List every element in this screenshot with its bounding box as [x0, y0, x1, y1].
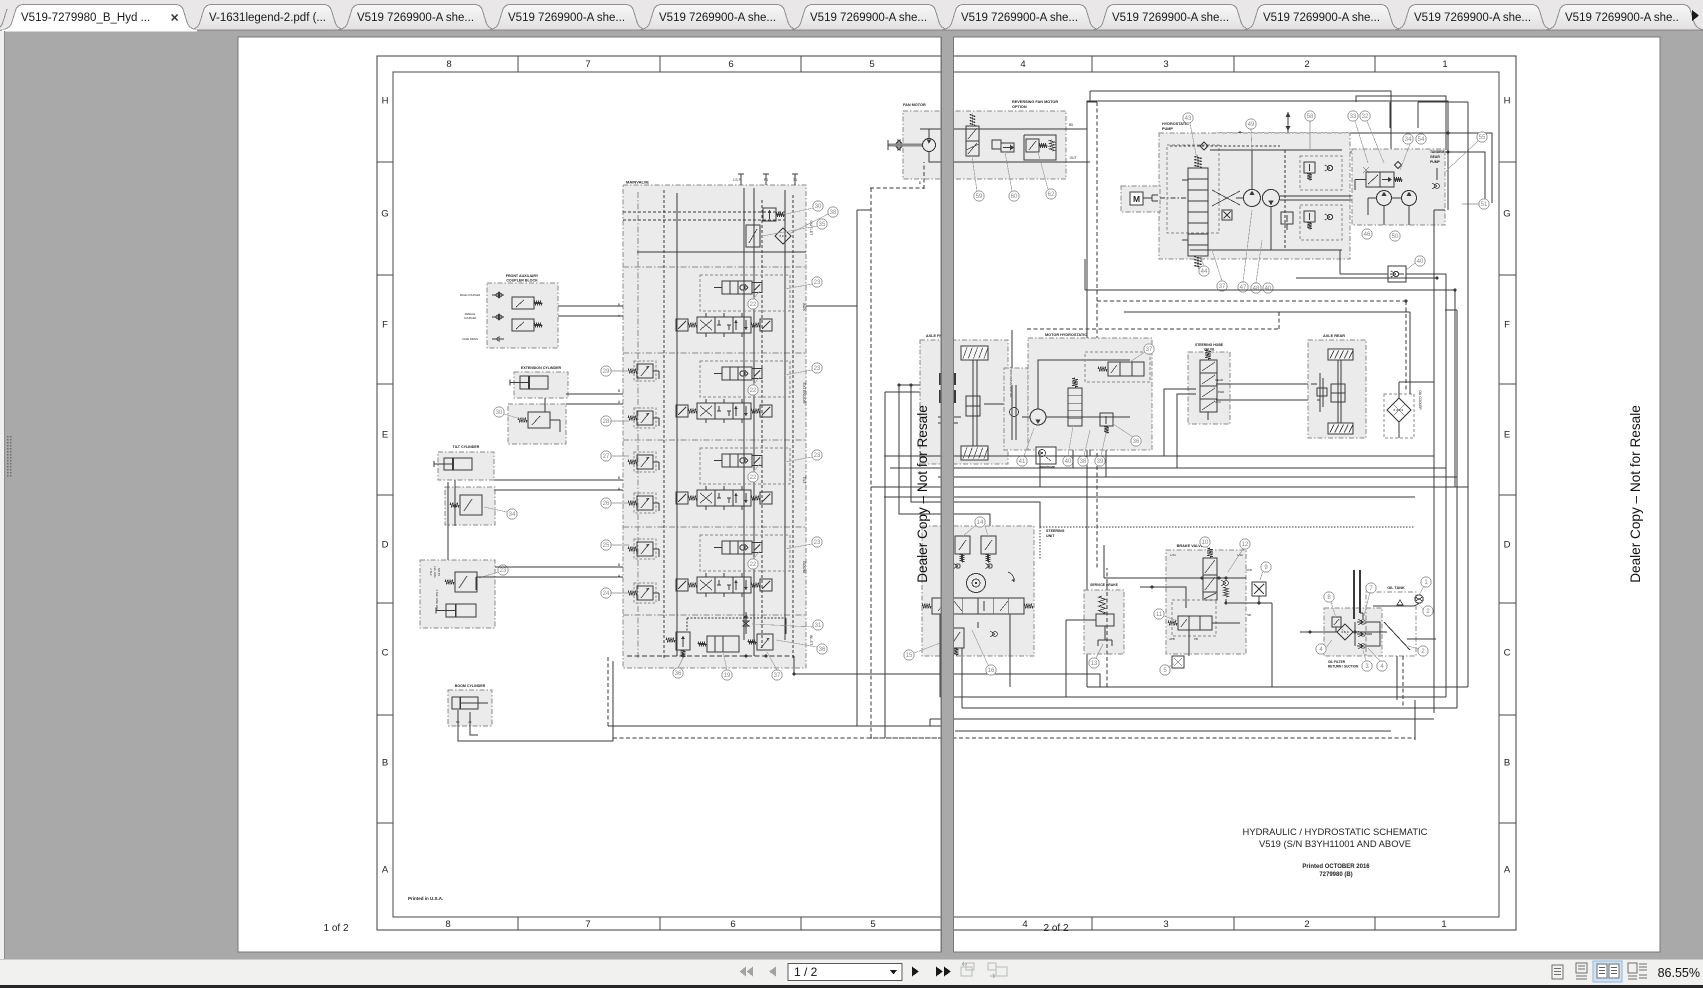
charge relief sub-block A	[1300, 156, 1342, 190]
svg-text:F: F	[382, 320, 388, 331]
svg-text:25: 25	[603, 543, 610, 549]
boom cylinder	[452, 697, 478, 709]
svg-text:54: 54	[1418, 137, 1425, 143]
inlet section unloader valve	[707, 636, 739, 652]
leftmost partial tab edge	[0, 9, 7, 30]
continuous layout icon	[1576, 963, 1587, 979]
page 2 drawing outer frame	[954, 56, 1516, 930]
svg-text:40: 40	[1065, 459, 1072, 465]
outlet balloons	[813, 201, 823, 211]
outlet unload valve	[746, 225, 760, 247]
svg-text:8: 8	[445, 919, 450, 930]
svg-text:31: 31	[815, 623, 822, 629]
svg-text:OIL TANK: OIL TANK	[1387, 586, 1405, 590]
svg-text:7279980 (B): 7279980 (B)	[1319, 872, 1352, 878]
svg-text:36: 36	[819, 647, 826, 653]
fan return solid trunk down	[1086, 129, 1088, 687]
brake valve balloons	[1200, 537, 1210, 547]
svg-text:C: C	[1504, 648, 1511, 659]
svg-text:16: 16	[988, 668, 995, 674]
brake valve supply wire	[1104, 577, 1246, 579]
tilt valve balloon	[507, 509, 517, 519]
inlet pilot dash wire	[687, 617, 786, 619]
fan motor circle	[923, 139, 936, 152]
tank outlet wires	[1396, 656, 1398, 700]
svg-text:H: H	[1504, 96, 1511, 107]
page gap	[942, 36, 954, 953]
svg-text:RETURN / SUCTION: RETURN / SUCTION	[1328, 665, 1359, 669]
svg-text:V-1631legend-2.pdf (...: V-1631legend-2.pdf (...	[209, 12, 326, 24]
svg-text:35: 35	[819, 222, 826, 228]
svg-text:D: D	[382, 540, 389, 551]
long return wire dashed to page 2	[613, 737, 953, 739]
pump servo sub-box	[1167, 145, 1219, 233]
svg-text:EXTENDOR: EXTENDOR	[802, 382, 806, 403]
svg-text:UNIT: UNIT	[1046, 534, 1055, 538]
svg-text:V519 7269900-A she...: V519 7269900-A she...	[357, 12, 474, 24]
svg-text:2 of 2: 2 of 2	[1043, 923, 1068, 934]
svg-text:BOOM: BOOM	[802, 561, 806, 573]
work section EXTENDOR main spool valve	[697, 403, 751, 419]
svg-text:55: 55	[1479, 135, 1486, 141]
coupler fittings	[492, 294, 504, 296]
brake pressure switch	[1252, 582, 1266, 596]
active tab V519-7279980_B_Hyd	[1, 5, 198, 31]
work section BOOM PO check valve	[700, 535, 790, 571]
svg-text:1: 1	[1442, 59, 1447, 70]
svg-text:2: 2	[1304, 59, 1309, 70]
svg-text:32: 32	[1362, 114, 1369, 120]
svg-text:OIL COOLER: OIL COOLER	[1418, 390, 1422, 410]
hydrostatic pump circles	[1244, 190, 1261, 207]
svg-text:E: E	[382, 430, 388, 441]
tank fluid level line	[1373, 605, 1414, 607]
svg-text:1: 1	[1441, 919, 1446, 930]
svg-text:2: 2	[1304, 919, 1309, 930]
axle rear differential	[1331, 384, 1345, 402]
two page continuous layout icon	[1628, 963, 1647, 979]
svg-text:GEAR: GEAR	[1430, 155, 1440, 159]
drive motor loop	[1038, 360, 1130, 409]
inactive tab 9	[1243, 5, 1403, 31]
svg-text:A: A	[1504, 865, 1511, 876]
fan drain dashed wire to trunk	[870, 187, 924, 189]
fan motor loop wires	[929, 129, 1066, 139]
svg-text:62: 62	[1048, 192, 1055, 198]
svg-text:30: 30	[815, 204, 822, 210]
bottom dark strip	[0, 985, 1703, 988]
previous page button	[769, 967, 776, 977]
extension cylinder valve block	[508, 404, 566, 444]
work section AUX balloons	[812, 277, 822, 287]
engine motor box	[1121, 186, 1160, 212]
svg-text:44: 44	[1201, 269, 1208, 275]
svg-text:EXTENSION CYLINDER: EXTENSION CYLINDER	[521, 366, 562, 370]
front auxiliary coupler block	[487, 283, 558, 348]
extension valve balloon	[494, 407, 504, 417]
work section TILT balloons	[812, 450, 822, 460]
svg-text:BOOM CYLINDER: BOOM CYLINDER	[455, 684, 486, 688]
svg-text:4: 4	[1020, 59, 1025, 70]
inactive tab 6	[790, 5, 950, 31]
oil cooler wires	[1398, 382, 1400, 398]
svg-text:TILT CYLINDER: TILT CYLINDER	[453, 445, 480, 449]
filter wires	[1300, 631, 1337, 633]
rpm temp sensor	[1036, 447, 1056, 464]
inactive tab 3	[337, 5, 497, 31]
svg-text:HYDRAULIC / HYDROSTATIC SCHEMA: HYDRAULIC / HYDROSTATIC SCHEMATIC	[1243, 826, 1428, 837]
brake pressure switch 2	[1172, 656, 1184, 668]
axle rear brake discs	[1319, 373, 1321, 412]
charge relief sub-block B	[1300, 205, 1342, 240]
wires extension block to main valve	[566, 393, 623, 395]
svg-text:MAINVALVE: MAINVALVE	[626, 180, 649, 185]
brake spool output wires	[1212, 622, 1240, 624]
svg-text:29: 29	[603, 369, 610, 375]
dotted supply line above brake valve	[1040, 526, 1415, 528]
filter return trunk lines	[1353, 570, 1355, 619]
inactive tab 8	[1092, 5, 1252, 31]
svg-text:V519 7269900-A she..: V519 7269900-A she..	[1565, 12, 1679, 24]
svg-text:SERVICE BRAKE: SERVICE BRAKE	[1090, 583, 1119, 587]
svg-text:V519 7269900-A she...: V519 7269900-A she...	[810, 12, 927, 24]
inlet section relief valve 2	[757, 634, 773, 650]
extension cylinder	[520, 376, 548, 389]
svg-text:14: 14	[977, 520, 984, 526]
svg-text:✕: ✕	[170, 13, 179, 25]
steering gerotor	[967, 574, 986, 593]
inactive tab 11	[1545, 5, 1703, 31]
svg-text:58: 58	[1307, 114, 1314, 120]
svg-text:C: C	[382, 648, 389, 659]
svg-text:27: 27	[603, 454, 610, 460]
work section EXTENDOR PO check valve	[700, 361, 790, 397]
wires coupler block to main valve	[558, 305, 623, 307]
svg-text:BRAKE VALVE: BRAKE VALVE	[1177, 544, 1204, 548]
work section BOOM main spool valve	[697, 577, 751, 593]
oil cooler	[1384, 394, 1414, 438]
svg-text:30: 30	[496, 410, 503, 416]
hydrostatic pump block	[1159, 133, 1350, 259]
svg-text:6: 6	[728, 59, 733, 70]
svg-text:23: 23	[814, 366, 821, 372]
svg-text:V519 7269900-A she...: V519 7269900-A she...	[508, 12, 625, 24]
main control valve block	[623, 185, 806, 668]
outlet relief valve	[763, 208, 776, 221]
steering check bottom	[993, 632, 998, 637]
page number box	[788, 964, 902, 981]
filter balloons	[1324, 592, 1334, 602]
top right trunk wires	[1417, 102, 1419, 128]
steering unit wires down	[939, 614, 941, 697]
svg-text:40: 40	[1265, 286, 1272, 292]
motor control sub valve	[1085, 352, 1150, 382]
pump internal wires	[1284, 150, 1286, 250]
axle front wheel top	[961, 346, 988, 360]
extension load-holding valve	[528, 412, 550, 428]
svg-text:FEMALE: FEMALE	[465, 312, 476, 316]
svg-text:V519-7279980_B_Hyd ...: V519-7279980_B_Hyd ...	[21, 12, 150, 24]
svg-text:26: 26	[603, 501, 610, 507]
svg-text:40: 40	[1417, 259, 1424, 265]
steering relief valve right	[981, 536, 996, 554]
inlet outlet wire to right	[794, 656, 1100, 687]
brake valve sensor wires	[1228, 602, 1272, 604]
tank side outlet wire	[1407, 638, 1436, 640]
steering relief valve left	[955, 536, 970, 554]
steering unit block	[922, 526, 1034, 656]
svg-text:5: 5	[870, 919, 875, 930]
motor bottom balloons	[1017, 456, 1027, 466]
service brake actuator	[1099, 596, 1106, 614]
svg-text:37: 37	[774, 673, 781, 679]
fan motor shaft	[888, 144, 922, 147]
svg-text:D: D	[1504, 540, 1511, 551]
svg-text:V519 7269900-A she...: V519 7269900-A she...	[1263, 12, 1380, 24]
svg-text:3: 3	[1163, 919, 1168, 930]
axle rear shaft	[1337, 360, 1339, 423]
svg-text:Printed OCTOBER 2016: Printed OCTOBER 2016	[1302, 864, 1370, 870]
steering hobe spool	[1200, 360, 1217, 412]
steering rotary arrow	[1008, 572, 1014, 582]
outlet filter diamond	[775, 228, 791, 244]
right side vertical trunk bundle	[1433, 210, 1435, 713]
brake orifice check	[1224, 581, 1229, 586]
brake valve pilot wire	[1140, 587, 1186, 608]
svg-text:38: 38	[1080, 459, 1087, 465]
svg-text:STEERING: STEERING	[1046, 529, 1065, 533]
svg-text:ACB: ACB	[1246, 568, 1252, 572]
svg-text:STEERING HOBE: STEERING HOBE	[1195, 343, 1224, 347]
inlet balloons	[673, 668, 683, 678]
svg-text:13: 13	[1091, 661, 1098, 667]
page 2 drawing inner frame	[954, 72, 1499, 917]
gear pump check valve	[1436, 168, 1438, 180]
inactive tab 10	[1394, 5, 1554, 31]
oil tank block	[1366, 592, 1416, 656]
svg-text:AXLE REAR: AXLE REAR	[1323, 334, 1345, 338]
axle rear wheel top	[1328, 349, 1353, 360]
tank breather	[1415, 595, 1423, 603]
axle front brake pack	[939, 373, 956, 385]
svg-text:50: 50	[1392, 234, 1399, 240]
svg-text:V519 7269900-A she...: V519 7269900-A she...	[1414, 12, 1531, 24]
tandem gear pump block	[1352, 149, 1445, 225]
svg-text:7: 7	[585, 919, 590, 930]
svg-text:E: E	[1504, 430, 1510, 441]
svg-text:1 of 2: 1 of 2	[323, 923, 348, 934]
svg-text:34: 34	[509, 512, 516, 518]
svg-text:SB: SB	[1247, 613, 1251, 617]
fan blades symbol	[894, 140, 904, 150]
svg-text:22: 22	[750, 388, 757, 394]
svg-text:LS F: LS F	[733, 178, 741, 182]
svg-text:NO.87: NO.87	[437, 568, 441, 577]
speed sensor arrows	[1287, 112, 1289, 135]
svg-text:39: 39	[1097, 459, 1104, 465]
svg-text:OIL FILTER: OIL FILTER	[1328, 660, 1346, 664]
fan motor block	[903, 111, 1066, 179]
svg-text:43: 43	[1185, 116, 1192, 122]
pump case relief	[1281, 212, 1293, 224]
tilt cylinder	[444, 458, 472, 470]
main valve section divider lines	[623, 266, 806, 268]
svg-text:2 SLF LINE LNG: 2 SLF LINE LNG	[435, 590, 439, 611]
motor block drop wires	[1039, 450, 1041, 487]
svg-text:15: 15	[906, 653, 913, 659]
fan outlet wires to right	[1066, 128, 1087, 130]
svg-text:PB: PB	[1194, 637, 1198, 641]
page 2 sheet	[953, 37, 1660, 952]
axle front shaft	[972, 360, 974, 446]
svg-text:24: 24	[603, 591, 610, 597]
svg-text:H: H	[382, 96, 389, 107]
inactive tab 7	[941, 5, 1101, 31]
svg-text:V519 (S/N B3YH11001 AND ABOVE: V519 (S/N B3YH11001 AND ABOVE	[1259, 838, 1411, 849]
horizontal trunk wires mid page 2	[1085, 289, 1455, 291]
page 1 drawing outer frame	[377, 56, 941, 930]
svg-text:2 SLF: 2 SLF	[429, 568, 433, 576]
motor hydrostatic block	[1028, 338, 1152, 450]
check valve box lower	[1388, 266, 1406, 282]
wires to axle front brakes	[899, 384, 943, 386]
svg-text:M: M	[1133, 194, 1140, 204]
svg-text:LVL LNG: LVL LNG	[433, 566, 437, 577]
svg-text:D: D	[919, 181, 922, 185]
left collapsed sidebar strip	[0, 31, 4, 959]
steering bottom relief	[948, 628, 964, 648]
pilot reducing valves column	[637, 364, 653, 378]
self level relief valve	[455, 572, 477, 592]
svg-text:Dealer Copy – Not for Resale: Dealer Copy – Not for Resale	[915, 405, 930, 583]
svg-text:19: 19	[724, 673, 731, 679]
svg-text:4: 4	[1022, 919, 1027, 930]
wires tilt block to main valve	[494, 479, 623, 481]
oil filter block	[1324, 608, 1382, 656]
axle rear wheel bottom	[1328, 423, 1353, 434]
fan relief valve	[1026, 139, 1039, 152]
service brake block	[1084, 590, 1124, 654]
svg-text:33: 33	[1350, 114, 1357, 120]
charge supply wires top right	[1218, 133, 1492, 203]
svg-text:1 / 2: 1 / 2	[794, 965, 818, 979]
self level block	[420, 560, 495, 628]
svg-text:V519 7269900-A she...: V519 7269900-A she...	[659, 12, 776, 24]
fan option balloons	[974, 191, 984, 201]
svg-text:38: 38	[830, 210, 837, 216]
svg-text:PUMP: PUMP	[1430, 160, 1441, 164]
steering unit balloons	[975, 517, 985, 527]
svg-text:G: G	[1503, 209, 1510, 220]
svg-text:60: 60	[1011, 194, 1018, 200]
tank dipstick	[1384, 622, 1410, 650]
axle front wheel bottom	[961, 446, 988, 460]
svg-text:37: 37	[1219, 284, 1226, 290]
svg-text:36: 36	[675, 671, 682, 677]
service brake wires	[1066, 619, 1096, 621]
pump through shaft	[1280, 195, 1377, 197]
filter diamond	[1337, 624, 1353, 640]
vertical trunk wires left of gap	[884, 392, 886, 738]
svg-text:37: 37	[1146, 347, 1153, 353]
svg-text:MOTOR HYDROSTATIC: MOTOR HYDROSTATIC	[1045, 333, 1087, 337]
svg-text:TANDEM: TANDEM	[1430, 150, 1444, 154]
axle front differential	[966, 396, 980, 416]
svg-text:23: 23	[814, 280, 821, 286]
svg-text:23: 23	[814, 540, 821, 546]
svg-text:Printed in U.S.A.: Printed in U.S.A.	[408, 896, 443, 901]
page 1 drawing inner frame	[393, 72, 941, 917]
svg-text:Dealer Copy – Not for Resale: Dealer Copy – Not for Resale	[1628, 405, 1643, 583]
inactive tab 5	[639, 5, 799, 31]
wires steering hobe to return bus	[1164, 389, 1196, 456]
last page button	[936, 967, 951, 977]
svg-text:86.55%: 86.55%	[1658, 966, 1700, 980]
work section AUX main spool valve	[697, 317, 751, 333]
svg-text:COUPLER BLOCK: COUPLER BLOCK	[506, 279, 538, 283]
self level balloon	[498, 565, 508, 575]
svg-text:11: 11	[1156, 612, 1163, 618]
motor block balloons	[1144, 344, 1154, 354]
page 1 sheet	[238, 37, 941, 952]
two speed gearbox block	[1004, 368, 1028, 450]
steering spool row	[932, 598, 1024, 614]
bottom bus wires page 2	[1087, 686, 1468, 688]
svg-text:CASE DRAIN: CASE DRAIN	[462, 337, 478, 341]
svg-text:AUX: AUX	[802, 303, 806, 311]
motor servo spool	[1068, 388, 1082, 426]
coupler relief valves	[512, 297, 534, 309]
svg-text:36: 36	[1133, 439, 1140, 445]
mid return bus wires	[884, 455, 1434, 457]
inlet section relief valve	[676, 632, 690, 650]
brake solenoid valve	[1203, 558, 1217, 592]
svg-text:B: B	[382, 758, 388, 769]
svg-text:59: 59	[976, 194, 983, 200]
steering check valves	[956, 564, 960, 568]
main valve internal horizontal header lines	[623, 211, 785, 213]
svg-text:51: 51	[1481, 202, 1488, 208]
junction dots top right	[1216, 131, 1449, 153]
pump charge line diamond	[1170, 145, 1280, 147]
main valve right side trunk wires	[856, 210, 858, 726]
rotate view buttons disabled	[961, 963, 974, 976]
axle rear block	[1308, 340, 1366, 438]
service brake balloon	[1089, 658, 1099, 668]
filter bypass relief	[1332, 617, 1341, 627]
inactive tab 2	[189, 5, 346, 31]
svg-text:GEAR: GEAR	[1215, 378, 1223, 382]
solenoid check diamond	[1395, 162, 1402, 169]
svg-text:23: 23	[500, 568, 507, 574]
wires self level to main valve	[495, 566, 623, 568]
svg-text:V519 7269900-A she...: V519 7269900-A she...	[961, 12, 1078, 24]
brake valve block	[1166, 550, 1246, 654]
svg-text:OPTION: OPTION	[1012, 105, 1027, 109]
svg-text:AUX: AUX	[1215, 400, 1221, 404]
svg-text:F: F	[1504, 320, 1510, 331]
next page button	[912, 967, 919, 977]
svg-text:INLET: INLET	[809, 635, 813, 646]
two page layout icon highlighted	[1593, 961, 1622, 982]
wires steering hobe to axle rear	[1216, 383, 1311, 385]
svg-text:5: 5	[869, 59, 874, 70]
bottom toolbar	[0, 959, 1703, 985]
svg-text:46: 46	[1364, 232, 1371, 238]
svg-text:49: 49	[1248, 122, 1255, 128]
left dashed trunk from fan to bottom	[1096, 102, 1098, 568]
work section TILT main spool valve	[697, 490, 751, 506]
